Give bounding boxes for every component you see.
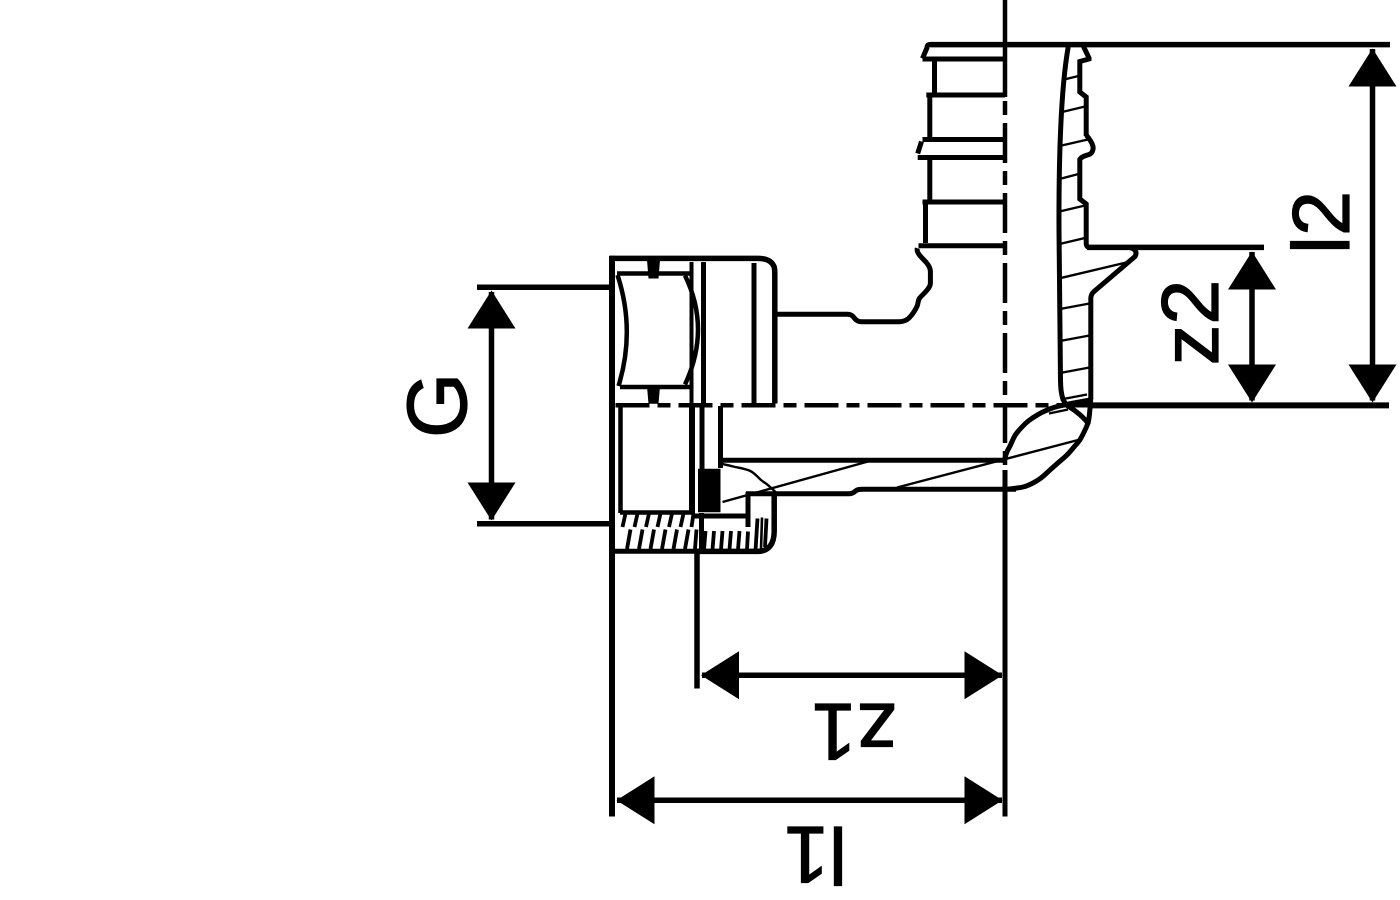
insert step line y516.5 xyxy=(694,513,747,549)
inner wall tail curve into elbow xyxy=(1061,379,1090,425)
dimension z2 xyxy=(1249,252,1255,401)
dimension z1 xyxy=(697,553,1002,689)
thin diagonal P2 fragment near elbow xyxy=(1049,410,1068,414)
right section inner wall of vertical tube xyxy=(1059,47,1068,381)
z1 left extension line xyxy=(694,553,700,689)
barb edge line y139.5 xyxy=(923,137,1006,142)
flare corner and slant down to elbow outer edge xyxy=(1091,247,1136,399)
barb edge line y95 xyxy=(926,93,1005,98)
nut hex front face arc xyxy=(685,276,698,385)
thread hatch marks in nut (upper row) xyxy=(623,514,767,551)
l1 arrow right xyxy=(965,776,1003,824)
nut thread band top line xyxy=(620,510,695,515)
nut hex left face arc xyxy=(618,275,627,386)
chamfer 2 left edge xyxy=(918,142,922,154)
insert step vertical x748 xyxy=(746,492,751,527)
l1 arrow left xyxy=(617,776,655,824)
hex corner notch top xyxy=(647,260,660,279)
G dimension line xyxy=(489,292,495,520)
G arrow up xyxy=(468,291,516,329)
z1 arrow right xyxy=(965,651,1003,699)
nut section outer wall bottom edge xyxy=(610,549,700,554)
barb edge line y246 xyxy=(919,243,1006,248)
nut right face edge xyxy=(701,262,706,404)
thread hatch marks in nut (lower row) xyxy=(627,530,631,550)
thin diagonal A at insert mouth xyxy=(723,464,776,492)
union nut top edge and collar corner xyxy=(610,258,775,403)
nut section inner wall xyxy=(618,406,623,513)
z2 arrow down xyxy=(1228,365,1276,403)
nut hex corner edge xyxy=(690,262,694,404)
vertical centerline dash-dot xyxy=(1003,101,1008,466)
z2 l2 bottom extension line (solid over centerline) xyxy=(1092,402,1389,408)
thread hatch marks on insert tail xyxy=(704,531,706,550)
union nut left edge + l1 left extension line xyxy=(609,256,615,817)
dimension l1 xyxy=(617,798,1002,804)
l2 arrow down xyxy=(1349,365,1397,403)
horizontal body bottom outer line (section) xyxy=(746,489,1016,494)
l2 dimension line xyxy=(1370,49,1376,401)
G bottom extension line xyxy=(477,521,612,527)
tube left edge S-break into body top xyxy=(774,248,931,322)
nut hex bottom chamfer line xyxy=(620,385,691,390)
tail inner vertical xyxy=(761,518,762,551)
thin diagonal Q (support sleeve edge) xyxy=(897,440,1080,488)
z2 arrow up xyxy=(1228,252,1276,290)
elbow outer radius curve xyxy=(1008,398,1091,489)
barb edge line y59 xyxy=(923,57,1006,62)
insert bore edge (section) xyxy=(718,406,723,468)
dimension l2 xyxy=(1370,49,1376,401)
left barb profile: chamfer 1 xyxy=(923,47,928,59)
G top extension line xyxy=(477,285,610,291)
vertical centerline lower solid / extension line for z1 l1 xyxy=(1003,470,1008,817)
insert inner edge (section) xyxy=(700,406,705,469)
right barb hook tip xyxy=(1080,135,1093,247)
insert tail outline with rounded corner xyxy=(697,495,774,551)
z1 arrow left xyxy=(701,651,739,699)
vertical centerline (top solid start) xyxy=(1003,0,1008,97)
G arrow down xyxy=(468,483,516,521)
bore bottom line (section) xyxy=(722,458,1005,463)
top edge of fitting + extension line for l2 xyxy=(928,45,1391,47)
barb edge line y157.5 xyxy=(918,155,1005,160)
ring 2 left edge xyxy=(923,204,928,244)
svg-text:l2: l2 xyxy=(1277,191,1367,254)
right barb profile chamfer 1 xyxy=(1080,47,1089,137)
svg-text:G: G xyxy=(390,373,484,438)
thin diagonal P (sleeve edge left) xyxy=(723,462,869,503)
flare top edge + z2 extension line xyxy=(1087,245,1264,251)
black sectioned wedge xyxy=(698,469,721,513)
hex corner notch bottom xyxy=(647,387,660,404)
svg-text:z2: z2 xyxy=(1146,280,1236,366)
svg-text:z1: z1 xyxy=(811,686,897,776)
z1 dimension line xyxy=(702,672,1002,678)
male insert end face (section) xyxy=(689,406,695,512)
z2 dimension line xyxy=(1249,252,1255,401)
body cylinder edge xyxy=(752,263,757,404)
svg-text:l1: l1 xyxy=(784,809,847,899)
neck 2 left edge xyxy=(927,160,932,201)
ring 1 left edge xyxy=(927,97,932,139)
thin cone line in flare xyxy=(1060,262,1131,279)
dimension G xyxy=(477,287,612,524)
horizontal centerline dash-dot xyxy=(616,403,1101,408)
l2 arrow up xyxy=(1349,49,1397,87)
barb edge line y202 xyxy=(923,200,1006,205)
neck 1 left edge xyxy=(932,61,937,94)
elbow bore corner curve xyxy=(1005,400,1091,460)
l1 dimension line xyxy=(617,798,1002,804)
nut hex top chamfer line xyxy=(617,271,691,276)
wall hatch lines xyxy=(1062,76,1079,80)
